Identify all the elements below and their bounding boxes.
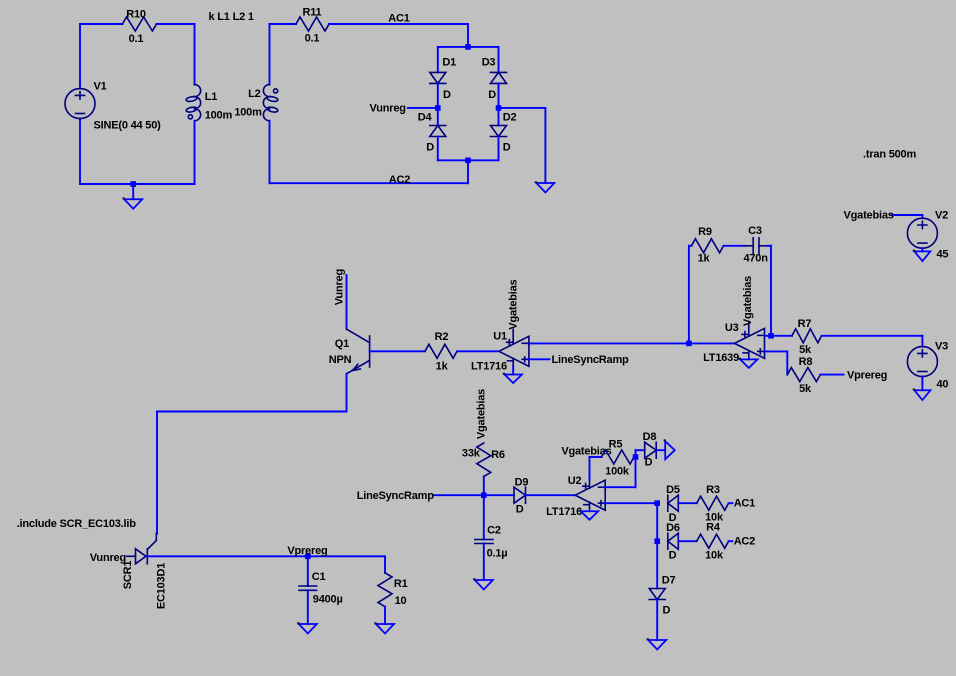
- svg-text:R3: R3: [706, 484, 720, 496]
- wire Q1 base to R2: [370, 350, 425, 352]
- svg-text:40: 40: [937, 378, 949, 390]
- ground G1: [124, 199, 142, 209]
- resistor R8: [787, 368, 820, 382]
- ground G2: [536, 183, 554, 193]
- wire V1 loop bottom: [80, 183, 195, 185]
- svg-text:U2: U2: [568, 475, 582, 487]
- wire R6 to node: [483, 476, 485, 495]
- ground G4 under U2: [581, 511, 598, 520]
- wire bridge right out: [499, 107, 546, 109]
- SCR SCR1: [127, 555, 136, 557]
- wire D7 to ground: [656, 600, 658, 641]
- wire R1 bottom: [384, 607, 386, 624]
- wire C3 right: [768, 245, 772, 247]
- wire ground stub: [132, 184, 134, 199]
- svg-text:D4: D4: [418, 111, 433, 123]
- resistor R7: [792, 329, 822, 343]
- svg-text:LineSyncRamp: LineSyncRamp: [552, 354, 630, 366]
- wire U1 Vminus to ground: [512, 366, 514, 375]
- wire R9 left down: [688, 246, 690, 344]
- wire D3 top: [498, 47, 500, 73]
- svg-text:Vgatebias: Vgatebias: [844, 209, 894, 221]
- svg-text:D8: D8: [643, 431, 657, 443]
- svg-text:D3: D3: [482, 57, 496, 69]
- svg-text:D: D: [669, 550, 677, 562]
- wire U2 minus to node: [605, 486, 636, 488]
- svg-text:470n: 470n: [743, 252, 768, 264]
- svg-text:LT1716: LT1716: [546, 506, 582, 518]
- inductor L1: [195, 85, 201, 97]
- wire V1 loop top: [80, 23, 122, 25]
- wire node to D9: [484, 494, 514, 496]
- voltage source V2: [907, 218, 937, 248]
- wire Vunreg label: [408, 107, 438, 109]
- node D5: [654, 500, 660, 506]
- wire node down to D7: [656, 541, 658, 588]
- wire Vgatebias to V2: [892, 214, 923, 216]
- wire node to D8: [635, 450, 637, 457]
- node bridge bottom: [465, 158, 471, 164]
- wire R8 to Vprereg: [820, 374, 843, 376]
- svg-text:5k: 5k: [799, 344, 812, 356]
- transistor Q1: [369, 336, 371, 367]
- node U3 minus: [768, 333, 774, 339]
- svg-text:Vgatebias: Vgatebias: [742, 276, 754, 326]
- wire bridge to AC2: [467, 160, 469, 183]
- diode D1: [430, 72, 446, 83]
- svg-text:5k: 5k: [799, 383, 812, 395]
- svg-text:R2: R2: [435, 331, 449, 343]
- wire U3 plus input: [765, 350, 788, 352]
- node R5 D8: [633, 454, 639, 460]
- ground G6: [475, 580, 493, 590]
- wire C2 bottom: [483, 544, 485, 581]
- wire D4 to bottom: [437, 137, 439, 161]
- svg-text:AC1: AC1: [388, 12, 409, 24]
- svg-text:R5: R5: [609, 439, 623, 451]
- svg-text:L2: L2: [248, 88, 261, 100]
- ground G9: [648, 640, 666, 650]
- svg-text:D6: D6: [666, 522, 680, 534]
- svg-text:D9: D9: [515, 476, 529, 488]
- wire R10 to L1: [157, 23, 195, 25]
- svg-text:V3: V3: [935, 341, 948, 353]
- wire U2 plus to node: [605, 502, 658, 504]
- wire D2 to bottom: [498, 137, 500, 161]
- svg-text:1k: 1k: [436, 361, 449, 373]
- svg-text:LT1716: LT1716: [471, 361, 507, 373]
- resistor R2: [425, 344, 457, 358]
- op-amp U2: [575, 480, 605, 510]
- wire U1 minus to node: [529, 342, 689, 344]
- svg-text:100m: 100m: [234, 106, 262, 118]
- resistor R3: [697, 496, 729, 510]
- node D6: [654, 538, 660, 544]
- node LineSyncRamp: [481, 492, 487, 498]
- wire AC1 corner down: [467, 24, 469, 47]
- resistor R5: [602, 450, 635, 464]
- ground G5 under U3: [740, 359, 757, 368]
- wire SCR cathode to R1: [147, 555, 385, 557]
- svg-text:C2: C2: [487, 524, 501, 536]
- diode D8: [645, 442, 657, 458]
- svg-text:100m: 100m: [205, 110, 233, 122]
- svg-text:V1: V1: [94, 80, 107, 92]
- wire D1 anode: [437, 47, 439, 73]
- op-amp U3: [735, 328, 765, 358]
- svg-text:D: D: [516, 504, 524, 516]
- inductor L2: [263, 85, 269, 97]
- diode D4: [430, 125, 446, 127]
- wire C1 bottom: [307, 590, 309, 624]
- wire D8 to port: [656, 449, 665, 451]
- svg-text:0.1: 0.1: [305, 33, 320, 45]
- wire D3 to node: [498, 83, 500, 125]
- svg-text:AC1: AC1: [734, 498, 755, 510]
- svg-text:R9: R9: [698, 226, 712, 238]
- capacitor C2: [483, 495, 485, 539]
- wire AC1 top: [329, 23, 468, 25]
- svg-text:D: D: [443, 89, 451, 101]
- wire U1 plus input: [529, 358, 550, 360]
- wire AC2 bottom: [270, 182, 469, 184]
- wire R9 to C3: [724, 245, 745, 247]
- ground G3 under U1: [505, 375, 522, 384]
- wire R3 to AC1: [729, 502, 733, 504]
- svg-text:10k: 10k: [705, 550, 724, 562]
- resistor R4: [697, 534, 729, 548]
- svg-text:C1: C1: [312, 571, 326, 583]
- ground G11: [914, 390, 930, 400]
- svg-text:LineSyncRamp: LineSyncRamp: [357, 490, 435, 502]
- node V1 ground junction: [130, 181, 136, 187]
- node Vprereg: [305, 554, 311, 560]
- svg-text:Vgatebias: Vgatebias: [475, 389, 487, 439]
- resistor R11: [296, 17, 329, 31]
- capacitor C3: [744, 245, 753, 247]
- svg-text:100k: 100k: [605, 466, 630, 478]
- svg-text:R1: R1: [394, 578, 408, 590]
- svg-text:C3: C3: [748, 225, 762, 237]
- svg-text:D: D: [488, 89, 496, 101]
- wire V1 loop left: [79, 24, 81, 89]
- svg-text:Vunreg: Vunreg: [370, 102, 406, 114]
- svg-text:D: D: [663, 605, 671, 617]
- svg-text:R4: R4: [706, 522, 721, 534]
- wire L2 left top: [269, 24, 271, 85]
- svg-text:Vprereg: Vprereg: [847, 369, 887, 381]
- ground G7: [376, 624, 394, 634]
- svg-text:R10: R10: [126, 9, 146, 21]
- svg-text:AC2: AC2: [389, 174, 410, 186]
- svg-text:R6: R6: [491, 449, 505, 461]
- wire U3 minus input: [765, 335, 793, 337]
- voltage source V1: [65, 89, 95, 119]
- svg-text:D: D: [503, 141, 511, 153]
- diode D9: [514, 487, 526, 503]
- svg-text:V2: V2: [935, 209, 948, 221]
- wire R4 to AC2: [729, 540, 733, 542]
- wire L1 top: [194, 24, 196, 85]
- svg-text:U1: U1: [493, 330, 507, 342]
- diode D3: [491, 71, 507, 73]
- svg-text:SCR1: SCR1: [122, 561, 134, 590]
- resistor R10: [122, 17, 156, 31]
- wire D6 to R4: [678, 540, 696, 542]
- node bridge top: [465, 44, 471, 50]
- wire D5 to R3: [678, 502, 696, 504]
- node bridge right: [496, 105, 502, 111]
- wire node to U3 output: [689, 342, 735, 344]
- resistor R6: [477, 443, 491, 476]
- svg-text:Vunreg: Vunreg: [334, 269, 346, 305]
- resistor R1: [378, 573, 392, 607]
- svg-text:1k: 1k: [698, 253, 711, 265]
- svg-text:Vgatebias: Vgatebias: [508, 279, 520, 329]
- port flag output: [665, 441, 675, 459]
- svg-text:33k: 33k: [462, 448, 481, 460]
- wire bridge top: [438, 46, 499, 48]
- op-amp U1: [499, 336, 529, 366]
- wire Vunreg to Q1 collector: [346, 275, 348, 329]
- svg-text:AC2: AC2: [734, 536, 755, 548]
- wire bridge bottom: [438, 159, 499, 161]
- wire D5 node down: [656, 503, 658, 541]
- capacitor C1: [307, 556, 309, 586]
- wire Q1 emitter down: [346, 374, 348, 412]
- wire L1 bottom: [194, 121, 196, 184]
- svg-text:Vunreg: Vunreg: [90, 552, 126, 564]
- svg-text:R7: R7: [798, 318, 812, 330]
- svg-text:D2: D2: [503, 111, 517, 123]
- svg-text:LT1639: LT1639: [703, 352, 739, 364]
- diode D6: [667, 533, 669, 549]
- svg-text:NPN: NPN: [329, 354, 352, 366]
- diode D7: [649, 589, 665, 600]
- wire emitter across: [157, 411, 347, 413]
- wire down to SCR gate: [156, 412, 158, 534]
- svg-text:L1: L1: [205, 91, 218, 103]
- resistor R9: [689, 245, 692, 247]
- voltage source V3: [907, 347, 937, 377]
- ground G10: [914, 251, 930, 261]
- svg-text:.include SCR_EC103.lib: .include SCR_EC103.lib: [17, 518, 137, 530]
- svg-text:0.1: 0.1: [129, 33, 144, 45]
- svg-text:SINE(0 44 50): SINE(0 44 50): [94, 119, 162, 131]
- svg-text:.tran 500m: .tran 500m: [863, 149, 916, 161]
- wire L2 bottom: [269, 121, 271, 183]
- svg-text:9400µ: 9400µ: [313, 593, 343, 605]
- svg-text:D7: D7: [662, 575, 676, 587]
- wire V2 bottom stub: [921, 248, 923, 251]
- wire D1 to node: [437, 83, 439, 125]
- wire D9 to U2: [526, 494, 576, 496]
- svg-text:Q1: Q1: [335, 338, 349, 350]
- svg-text:D1: D1: [442, 57, 456, 69]
- node U3 output: [686, 341, 692, 347]
- svg-text:U3: U3: [725, 322, 739, 334]
- svg-text:R11: R11: [303, 7, 322, 19]
- svg-text:D: D: [426, 141, 434, 153]
- svg-text:EC103D1: EC103D1: [156, 563, 168, 609]
- wire LineSyncRamp: [433, 494, 484, 496]
- svg-text:45: 45: [937, 249, 949, 261]
- wire C3 down to U3 minus: [770, 246, 772, 336]
- ground G8: [299, 624, 317, 634]
- wire R7 to V3: [822, 335, 923, 337]
- wire V3 bottom stub: [921, 377, 923, 391]
- wire L2 to R11: [270, 23, 297, 25]
- svg-text:R8: R8: [799, 356, 813, 368]
- diode D5: [667, 495, 669, 511]
- wire R2 to U1: [457, 350, 499, 352]
- node Vunreg bridge left: [435, 105, 441, 111]
- wire to R1: [384, 556, 386, 573]
- svg-text:k L1 L2 1: k L1 L2 1: [209, 11, 254, 23]
- svg-text:10: 10: [395, 595, 407, 607]
- svg-text:0.1µ: 0.1µ: [487, 548, 508, 560]
- svg-text:D5: D5: [666, 484, 680, 496]
- wire bridge right down: [544, 108, 546, 183]
- diode D2: [491, 126, 507, 137]
- svg-text:D: D: [645, 457, 653, 469]
